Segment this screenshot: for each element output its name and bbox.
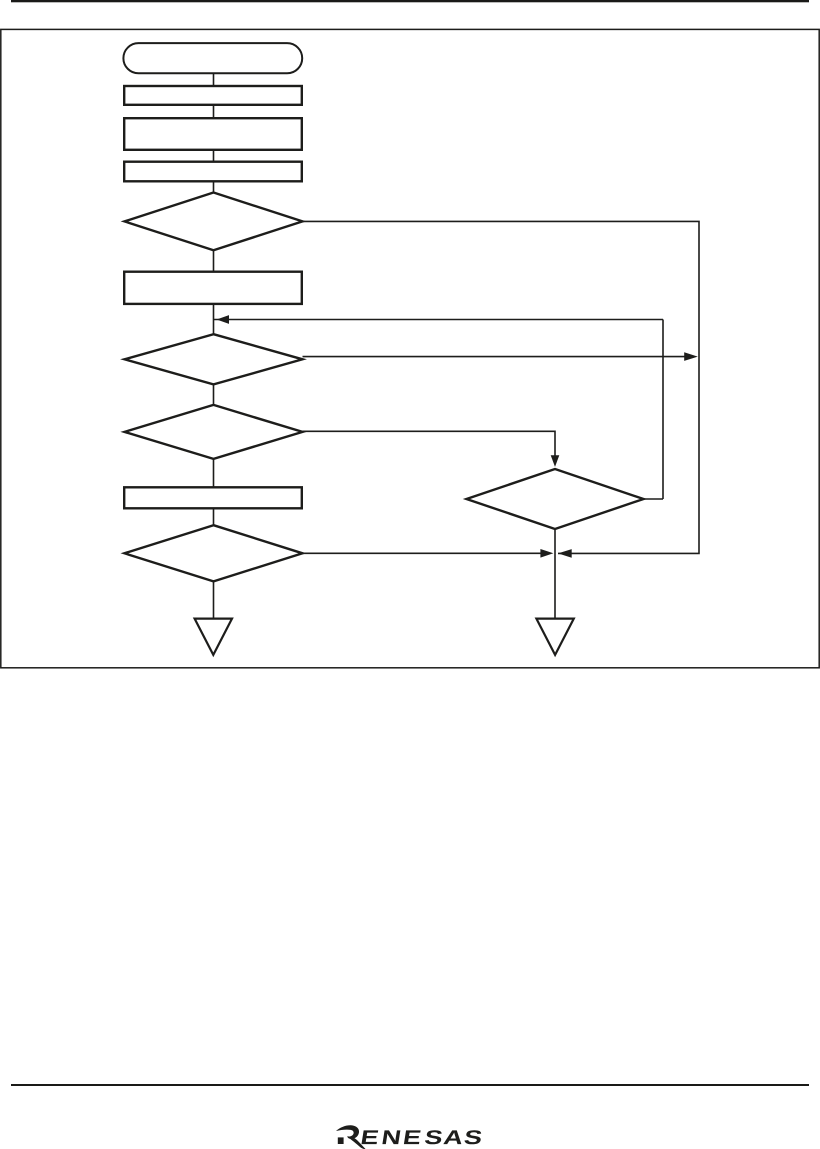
logo R swoosh head (336, 1125, 359, 1139)
decision diamond 5 (125, 525, 303, 581)
wire decision1 to right rail (303, 221, 700, 553)
off-page connector left (195, 619, 232, 655)
logo wordmark ENESAS (361, 1130, 482, 1144)
terminal start (123, 43, 302, 73)
wire diamond4 right stub and rail (644, 320, 664, 500)
logo R leg (347, 1136, 365, 1149)
process box 2 (124, 118, 302, 150)
wire decision2 to right rail (303, 356, 685, 358)
Renesas logo (336, 1125, 482, 1149)
arrowhead right at merge junction (540, 549, 553, 558)
footer rule (11, 1084, 809, 1086)
off-page connector right (536, 619, 573, 655)
process box 4 (124, 272, 302, 304)
logo square dot (338, 1137, 344, 1144)
wire diamond4 down to connector (554, 529, 556, 618)
process box 1 (124, 86, 302, 105)
wire loop-back into main column (214, 319, 664, 321)
decision diamond 1 (125, 193, 303, 251)
arrowhead left at merge junction (558, 549, 572, 558)
process box 3 (124, 162, 302, 182)
wire main column connectors (213, 74, 215, 618)
decision diamond 2 (125, 334, 303, 384)
arrowhead right into right rail (684, 352, 698, 361)
arrowhead down into diamond 4 (551, 455, 560, 467)
figure border box (1, 29, 819, 667)
wire decision3 to diamond 4 (303, 431, 556, 456)
decision diamond 3 (125, 405, 303, 459)
top header rule (11, 0, 809, 2)
decision diamond 4 (467, 469, 644, 529)
wire decision5 to merge junction (303, 552, 541, 554)
process box 5 (124, 487, 302, 508)
arrowhead left into main column (217, 315, 229, 324)
